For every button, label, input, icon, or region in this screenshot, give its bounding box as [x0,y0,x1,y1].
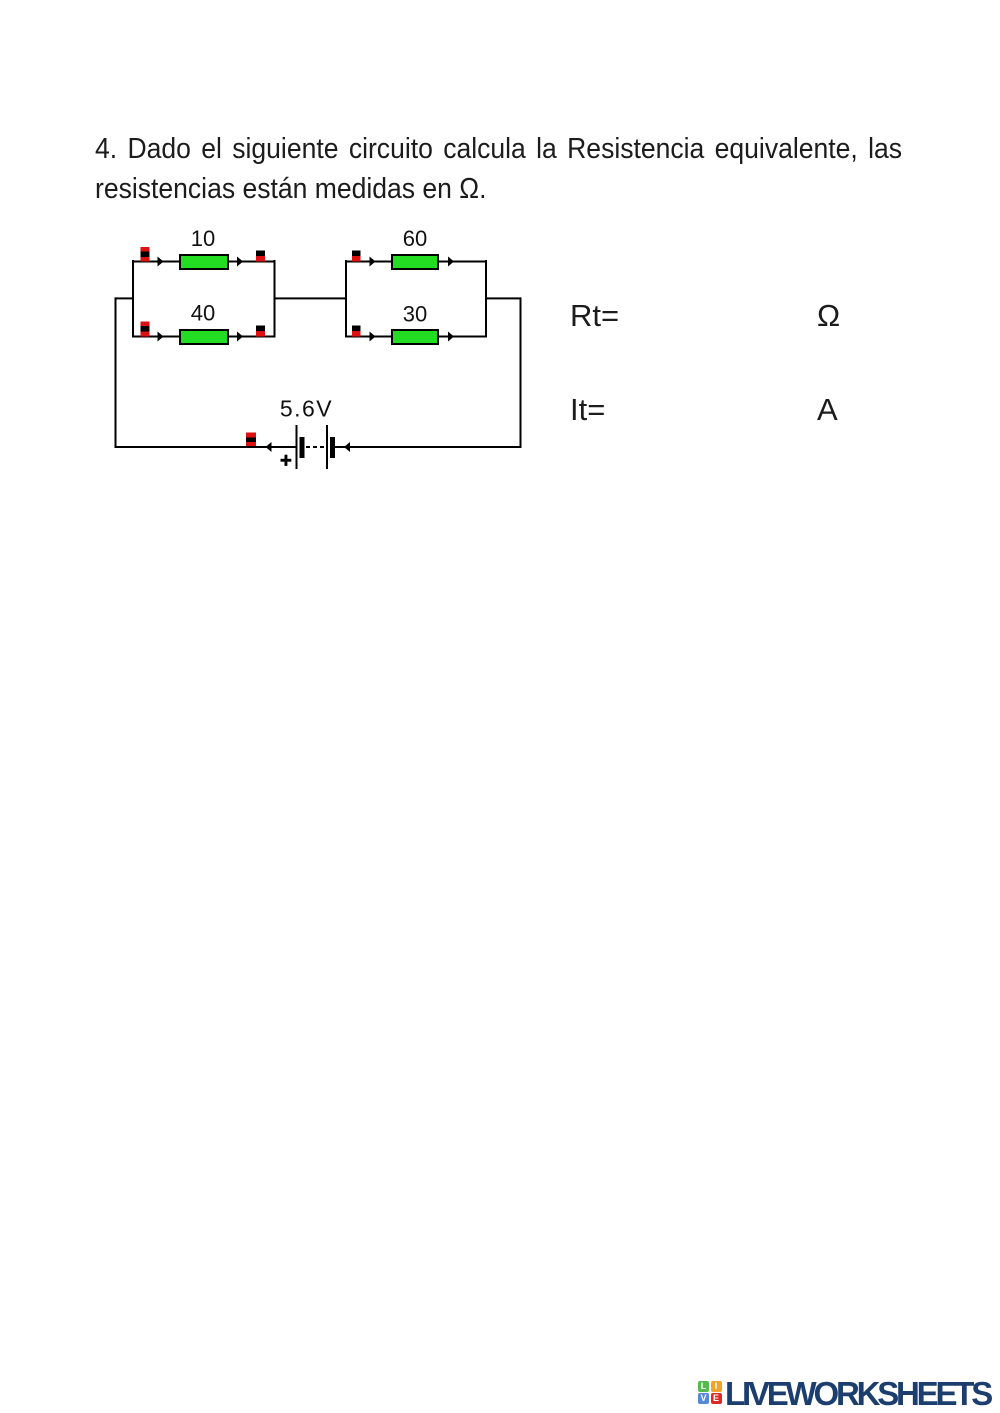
probe marker node C [256,251,265,262]
resistor R2 value 40 [180,330,228,344]
wire right outer vertical [520,297,522,448]
answer unit Ohm [817,300,840,331]
wire left outer stub [115,297,134,299]
problem statement paragraph [95,129,902,209]
current arrow branch R4 out [448,332,454,342]
current arrow battery left [266,442,272,452]
svg-text:60: 60 [403,226,427,251]
probe marker battery node [246,433,256,447]
wire left block right vertical [274,260,276,337]
wire middle connection [274,297,347,299]
current arrow branch R4 in [370,332,376,342]
circuit schematic [0,0,1000,520]
svg-text:10: 10 [191,226,215,251]
current arrow branch R3 out [448,257,454,267]
svg-text:30: 30 [403,302,427,327]
resistor R4 value 30 [392,330,438,344]
current arrow branch R1 out [237,257,243,267]
wire left block bottom branch [132,336,276,338]
liveworksheets logo icon [698,1381,723,1405]
probe marker node E [352,251,361,262]
battery BT1 5.6V [296,425,336,469]
probe marker node D [256,326,265,337]
wire right outer stub [485,297,521,299]
answer label Rt= [570,300,619,331]
probe marker node B [141,322,150,337]
wire left block left vertical [132,260,134,337]
probe marker node F [352,326,361,337]
resistor R3 value 60 [392,255,438,269]
answer label It= [570,394,605,425]
resistor R1 value 10 [180,255,228,269]
wire left block top branch [132,261,276,263]
current arrow branch R1 in [158,257,164,267]
current arrow branch R3 in [370,257,376,267]
answer unit A [817,394,838,425]
svg-text:5.6V: 5.6V [280,396,333,422]
wire bottom right segment [335,446,522,448]
probe marker node A [141,247,150,262]
wire right block bottom branch [345,336,487,338]
current arrow branch R2 in [158,332,164,342]
wire right block right vertical [485,260,487,337]
wire bottom left segment [115,446,296,448]
battery plus sign [281,455,292,466]
wire right block left vertical [345,260,347,337]
svg-text:40: 40 [191,301,215,326]
current arrow battery right [344,442,350,452]
current arrow branch R2 out [237,332,243,342]
liveworksheets logo text [725,1377,990,1410]
wire left outer vertical [115,297,117,448]
wire right block top branch [345,261,487,263]
